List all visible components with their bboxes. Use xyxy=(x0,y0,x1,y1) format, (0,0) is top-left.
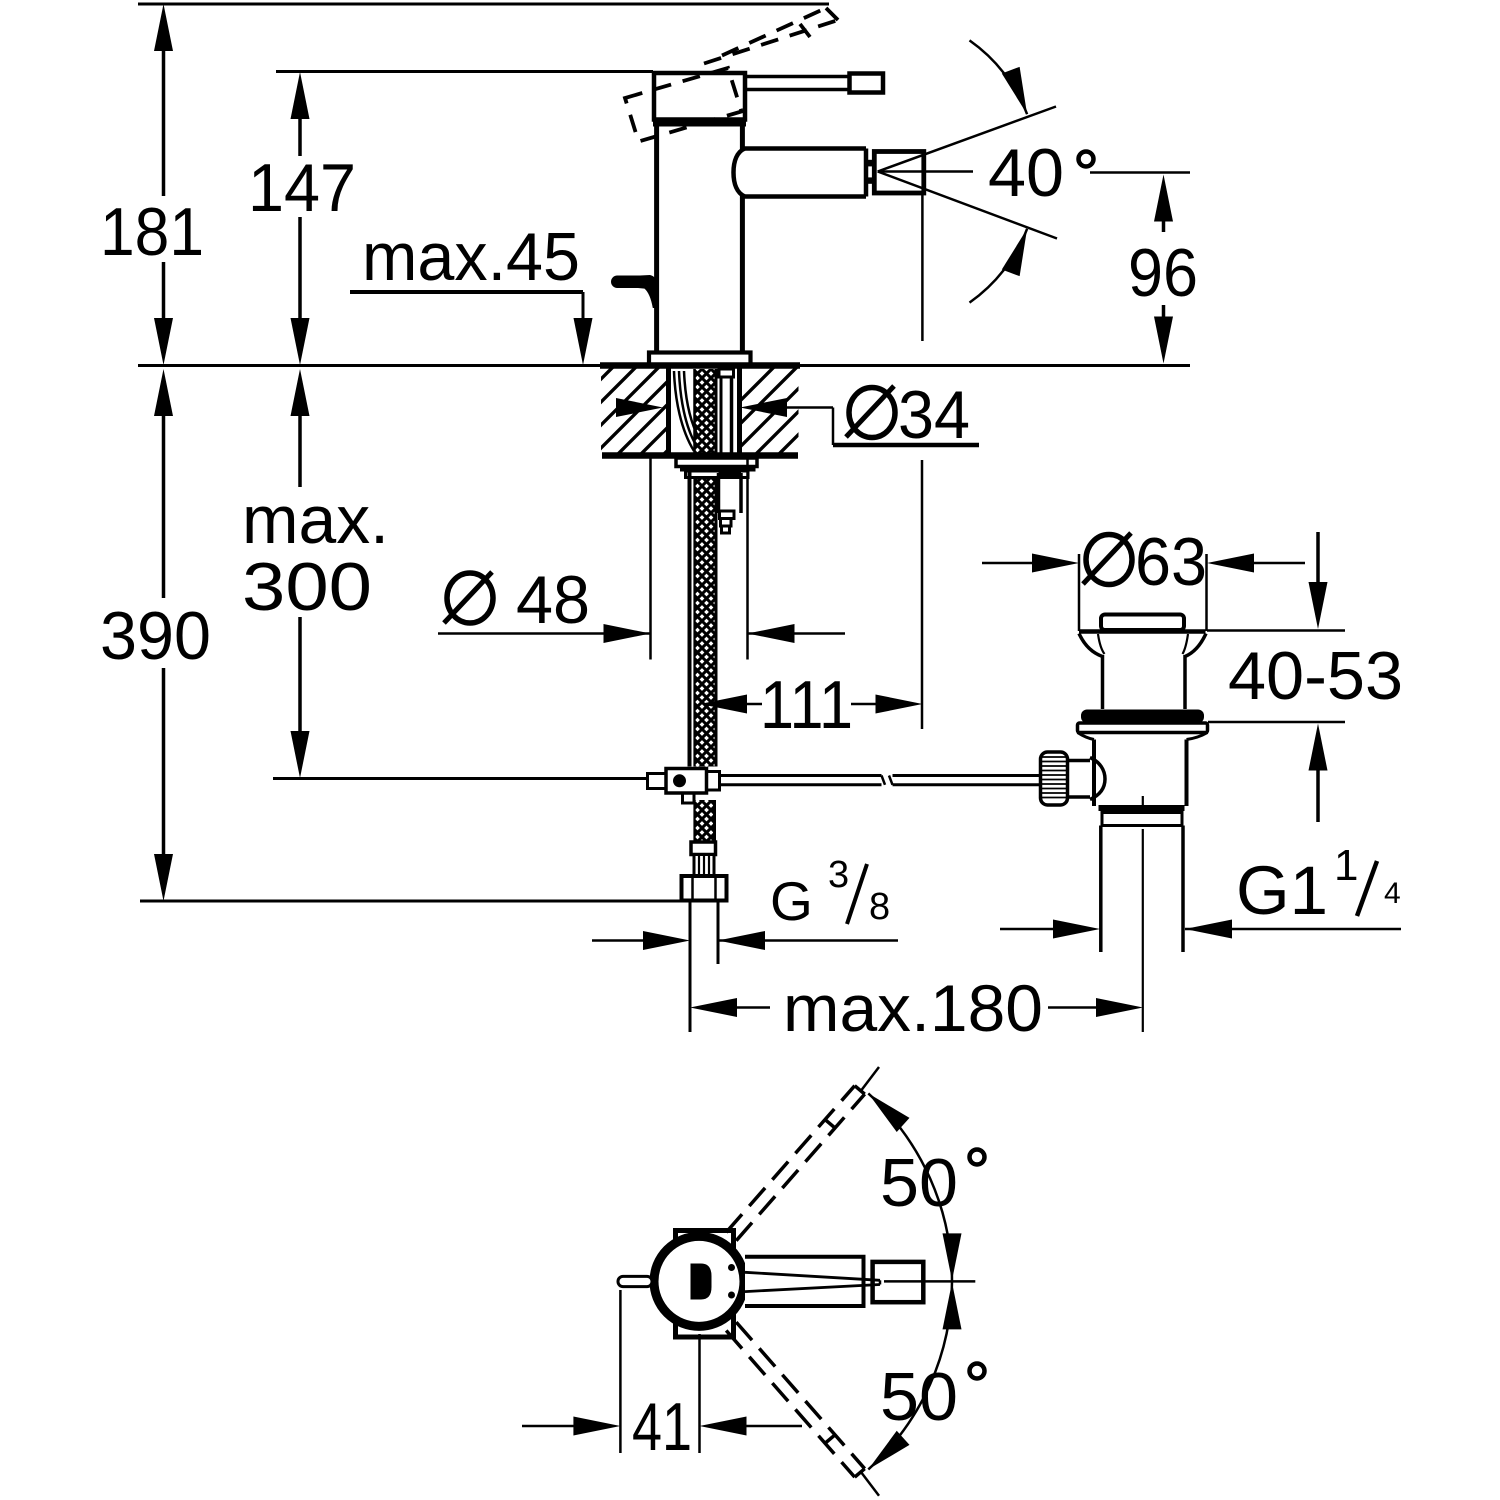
svg-text:max.: max. xyxy=(242,482,389,558)
svg-text:G: G xyxy=(770,870,813,932)
svg-text:1: 1 xyxy=(1334,841,1358,890)
svg-text:40-53: 40-53 xyxy=(1228,638,1403,714)
svg-text:390: 390 xyxy=(100,598,211,674)
svg-text:3: 3 xyxy=(828,854,849,896)
svg-text:63: 63 xyxy=(1135,524,1207,600)
svg-text:96: 96 xyxy=(1128,235,1198,311)
svg-text:8: 8 xyxy=(869,886,890,928)
svg-text:181: 181 xyxy=(100,194,204,270)
svg-text:111: 111 xyxy=(760,667,853,743)
svg-text:147: 147 xyxy=(248,150,356,226)
svg-text:48: 48 xyxy=(516,562,590,638)
svg-text:max.45: max.45 xyxy=(362,219,580,295)
svg-text:max.180: max.180 xyxy=(783,971,1043,1045)
svg-text:G1: G1 xyxy=(1236,852,1328,929)
svg-text:300: 300 xyxy=(242,549,372,625)
svg-text:50: 50 xyxy=(880,1359,958,1435)
svg-text:4: 4 xyxy=(1384,877,1401,910)
svg-text:41: 41 xyxy=(632,1389,692,1465)
svg-text:34: 34 xyxy=(898,377,970,453)
svg-text:50: 50 xyxy=(880,1145,958,1221)
svg-text:40: 40 xyxy=(988,135,1064,211)
